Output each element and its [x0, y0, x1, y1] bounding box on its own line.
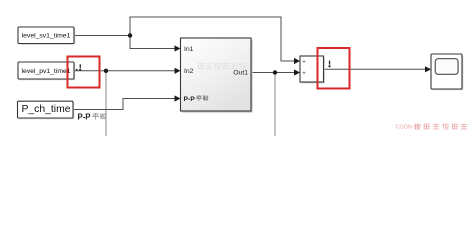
svg-text:In1: In1	[184, 46, 194, 53]
svg-text:In2: In2	[184, 68, 194, 75]
port label hanzi ping-jun	[196, 96, 202, 101]
arrowhead at sum input 1	[294, 58, 300, 64]
arrowhead at scope input	[425, 66, 431, 72]
badge beside sum output	[328, 61, 330, 68]
wire Out1 to sum input 2	[251, 72, 295, 74]
red selection box 1	[68, 57, 100, 88]
block level_sv1_time1	[18, 27, 75, 45]
arrowhead at port P-P	[175, 95, 181, 101]
wire sum output to scope	[324, 68, 426, 70]
sum block	[300, 56, 325, 83]
wire from level_pv1_time1 to In2	[75, 70, 176, 72]
svg-text:level_pv1_time1: level_pv1_time1	[21, 68, 70, 75]
arrowhead at In1	[175, 45, 181, 51]
arrowhead at In2	[175, 68, 181, 74]
wire from level_sv1_time1 output	[74, 35, 130, 37]
red selection box 2	[318, 48, 350, 89]
scope block	[431, 54, 463, 90]
subsystem block	[181, 38, 253, 113]
svg-text:P-P: P-P	[184, 96, 196, 103]
wire from P_ch_time to port P-P	[73, 99, 175, 110]
wire branch to In1	[130, 36, 176, 49]
svg-text:+: +	[302, 71, 306, 77]
dangling wire down from junction B	[105, 71, 107, 136]
scope screen	[435, 59, 458, 75]
svg-text:Out1: Out1	[233, 70, 248, 77]
dangling wire down from junction C	[274, 73, 276, 137]
CSDN watermark hanzi part	[414, 124, 420, 129]
arrowhead at sum input 2	[294, 69, 300, 75]
svg-text:+: +	[302, 59, 306, 65]
svg-text:P_ch_time: P_ch_time	[21, 104, 70, 115]
block level_pv1_time1	[18, 62, 75, 80]
svg-text:level_sv1_time1: level_sv1_time1	[22, 32, 71, 39]
junction dot B	[104, 69, 108, 73]
svg-text:P-P: P-P	[78, 112, 91, 121]
wire top branch to sum input 1	[130, 17, 295, 61]
junction dot A	[128, 33, 132, 37]
block P_ch_time	[18, 101, 75, 119]
faint watermark inside subsystem	[198, 64, 203, 69]
logging badge beside level_pv1_time1	[76, 64, 81, 71]
signal name label hanzi ping-jun	[92, 113, 99, 119]
junction dot C	[273, 70, 277, 74]
